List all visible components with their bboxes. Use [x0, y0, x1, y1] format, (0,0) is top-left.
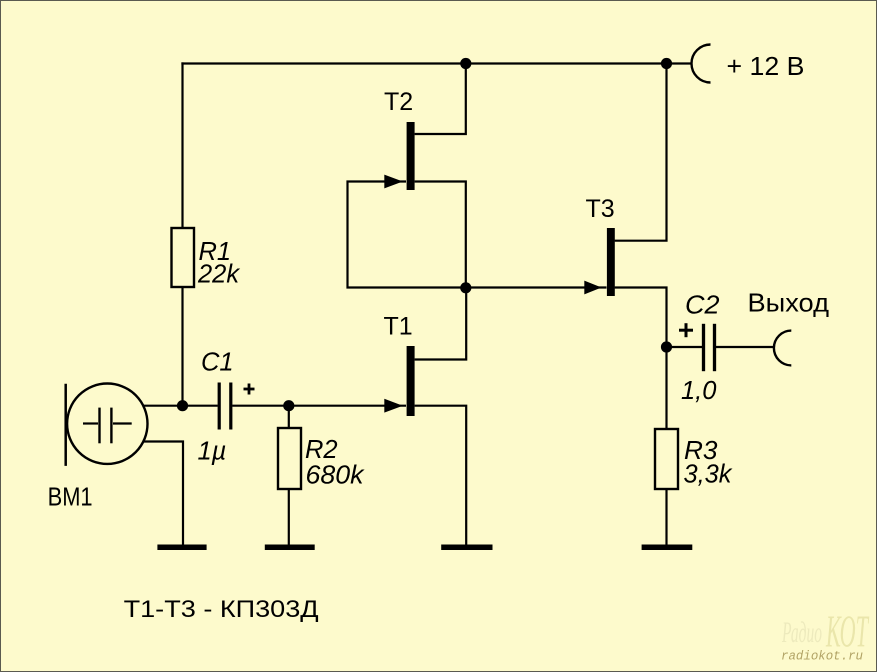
- resistor R3: [655, 429, 678, 489]
- node A (R1/mic/C1 junction): [177, 400, 188, 411]
- node B (C1/R2/T1-gate junction): [283, 400, 294, 411]
- svg-text:Т3: Т3: [586, 195, 615, 223]
- svg-text:R2: R2: [305, 436, 338, 464]
- transistor Q3 channel bar (T3): [607, 228, 615, 296]
- C2 plus sign: [679, 323, 693, 337]
- wire T1 drain stub: [415, 288, 467, 360]
- wire R1 top lead: [181, 62, 183, 228]
- svg-text:Т2: Т2: [384, 88, 413, 116]
- capacitor C1 plates: [219, 383, 231, 430]
- svg-text:C1: C1: [201, 349, 234, 377]
- microphone BM1 internal capacitor plates: [100, 408, 112, 444]
- wire T2 source: [415, 182, 466, 288]
- microphone BM1 body circle: [67, 384, 147, 464]
- wire top rail +12V: [181, 62, 691, 64]
- wire mic lower terminal: [144, 442, 183, 545]
- wire T3 source: [615, 288, 667, 348]
- wire T1 gate: [289, 405, 406, 407]
- ground (R2): [265, 545, 315, 551]
- wire T2 drain: [415, 64, 466, 135]
- svg-text:+ 12 В: + 12 В: [727, 51, 805, 81]
- node F (T3 source / C2 / R3): [661, 341, 672, 352]
- wire R2 top lead: [288, 406, 290, 428]
- svg-text:C2: C2: [685, 292, 720, 320]
- ground (T1 source): [441, 545, 492, 551]
- wire C1 right lead to node B: [232, 405, 289, 407]
- svg-text:1µ: 1µ: [198, 438, 227, 466]
- resistor R1: [172, 228, 195, 287]
- svg-text:ВМ1: ВМ1: [48, 484, 93, 512]
- wire R3 bottom lead: [665, 489, 667, 545]
- wire C2 right lead: [716, 346, 774, 348]
- T2 gate arrow: [384, 175, 403, 189]
- wire R2 bottom lead: [288, 489, 290, 545]
- ground (R3): [642, 545, 693, 551]
- svg-text:Т1-Т3 - КП303Д: Т1-Т3 - КП303Д: [124, 596, 319, 623]
- resistor R2: [278, 428, 301, 489]
- wire R1 bottom lead: [181, 287, 183, 406]
- svg-text:680k: 680k: [306, 462, 365, 490]
- wire R3 top lead: [665, 347, 667, 429]
- wire C1 left lead: [183, 405, 218, 407]
- wire T1 source: [415, 406, 467, 545]
- svg-text:Радио: Радио: [781, 616, 822, 649]
- node E (T3 drain on +12V rail): [661, 58, 672, 69]
- node D (T2 drain on +12V rail): [460, 58, 471, 69]
- svg-text:22k: 22k: [197, 261, 240, 289]
- T3 gate arrow: [584, 281, 601, 295]
- output connector socket: [774, 331, 791, 366]
- wire T3 drain: [615, 64, 667, 241]
- wire mic upper terminal: [144, 405, 183, 407]
- wire C2 left lead: [667, 346, 703, 348]
- microphone BM1 membrane line: [64, 384, 67, 466]
- svg-text:Т1: Т1: [384, 313, 413, 341]
- C1 plus sign: [244, 384, 255, 395]
- svg-text:3,3k: 3,3k: [684, 461, 733, 489]
- transistor Q2 channel bar (T2): [407, 122, 415, 190]
- transistor Q1 channel bar (T1): [407, 346, 415, 416]
- T1 gate arrow: [384, 399, 403, 413]
- svg-text:1,0: 1,0: [681, 377, 716, 405]
- microphone BM1 internal plate leads: [83, 422, 132, 424]
- svg-text:Выход: Выход: [748, 288, 830, 318]
- wire T2 gate loop: [348, 182, 466, 288]
- node C (T2 source / T1 drain / T3 gate): [460, 282, 471, 293]
- svg-text:radiokot.ru: radiokot.ru: [781, 649, 863, 664]
- +12V supply connector socket: [692, 45, 711, 83]
- wire T3 gate: [466, 286, 607, 288]
- ground (mic): [157, 545, 206, 551]
- capacitor C2 plates: [704, 324, 715, 371]
